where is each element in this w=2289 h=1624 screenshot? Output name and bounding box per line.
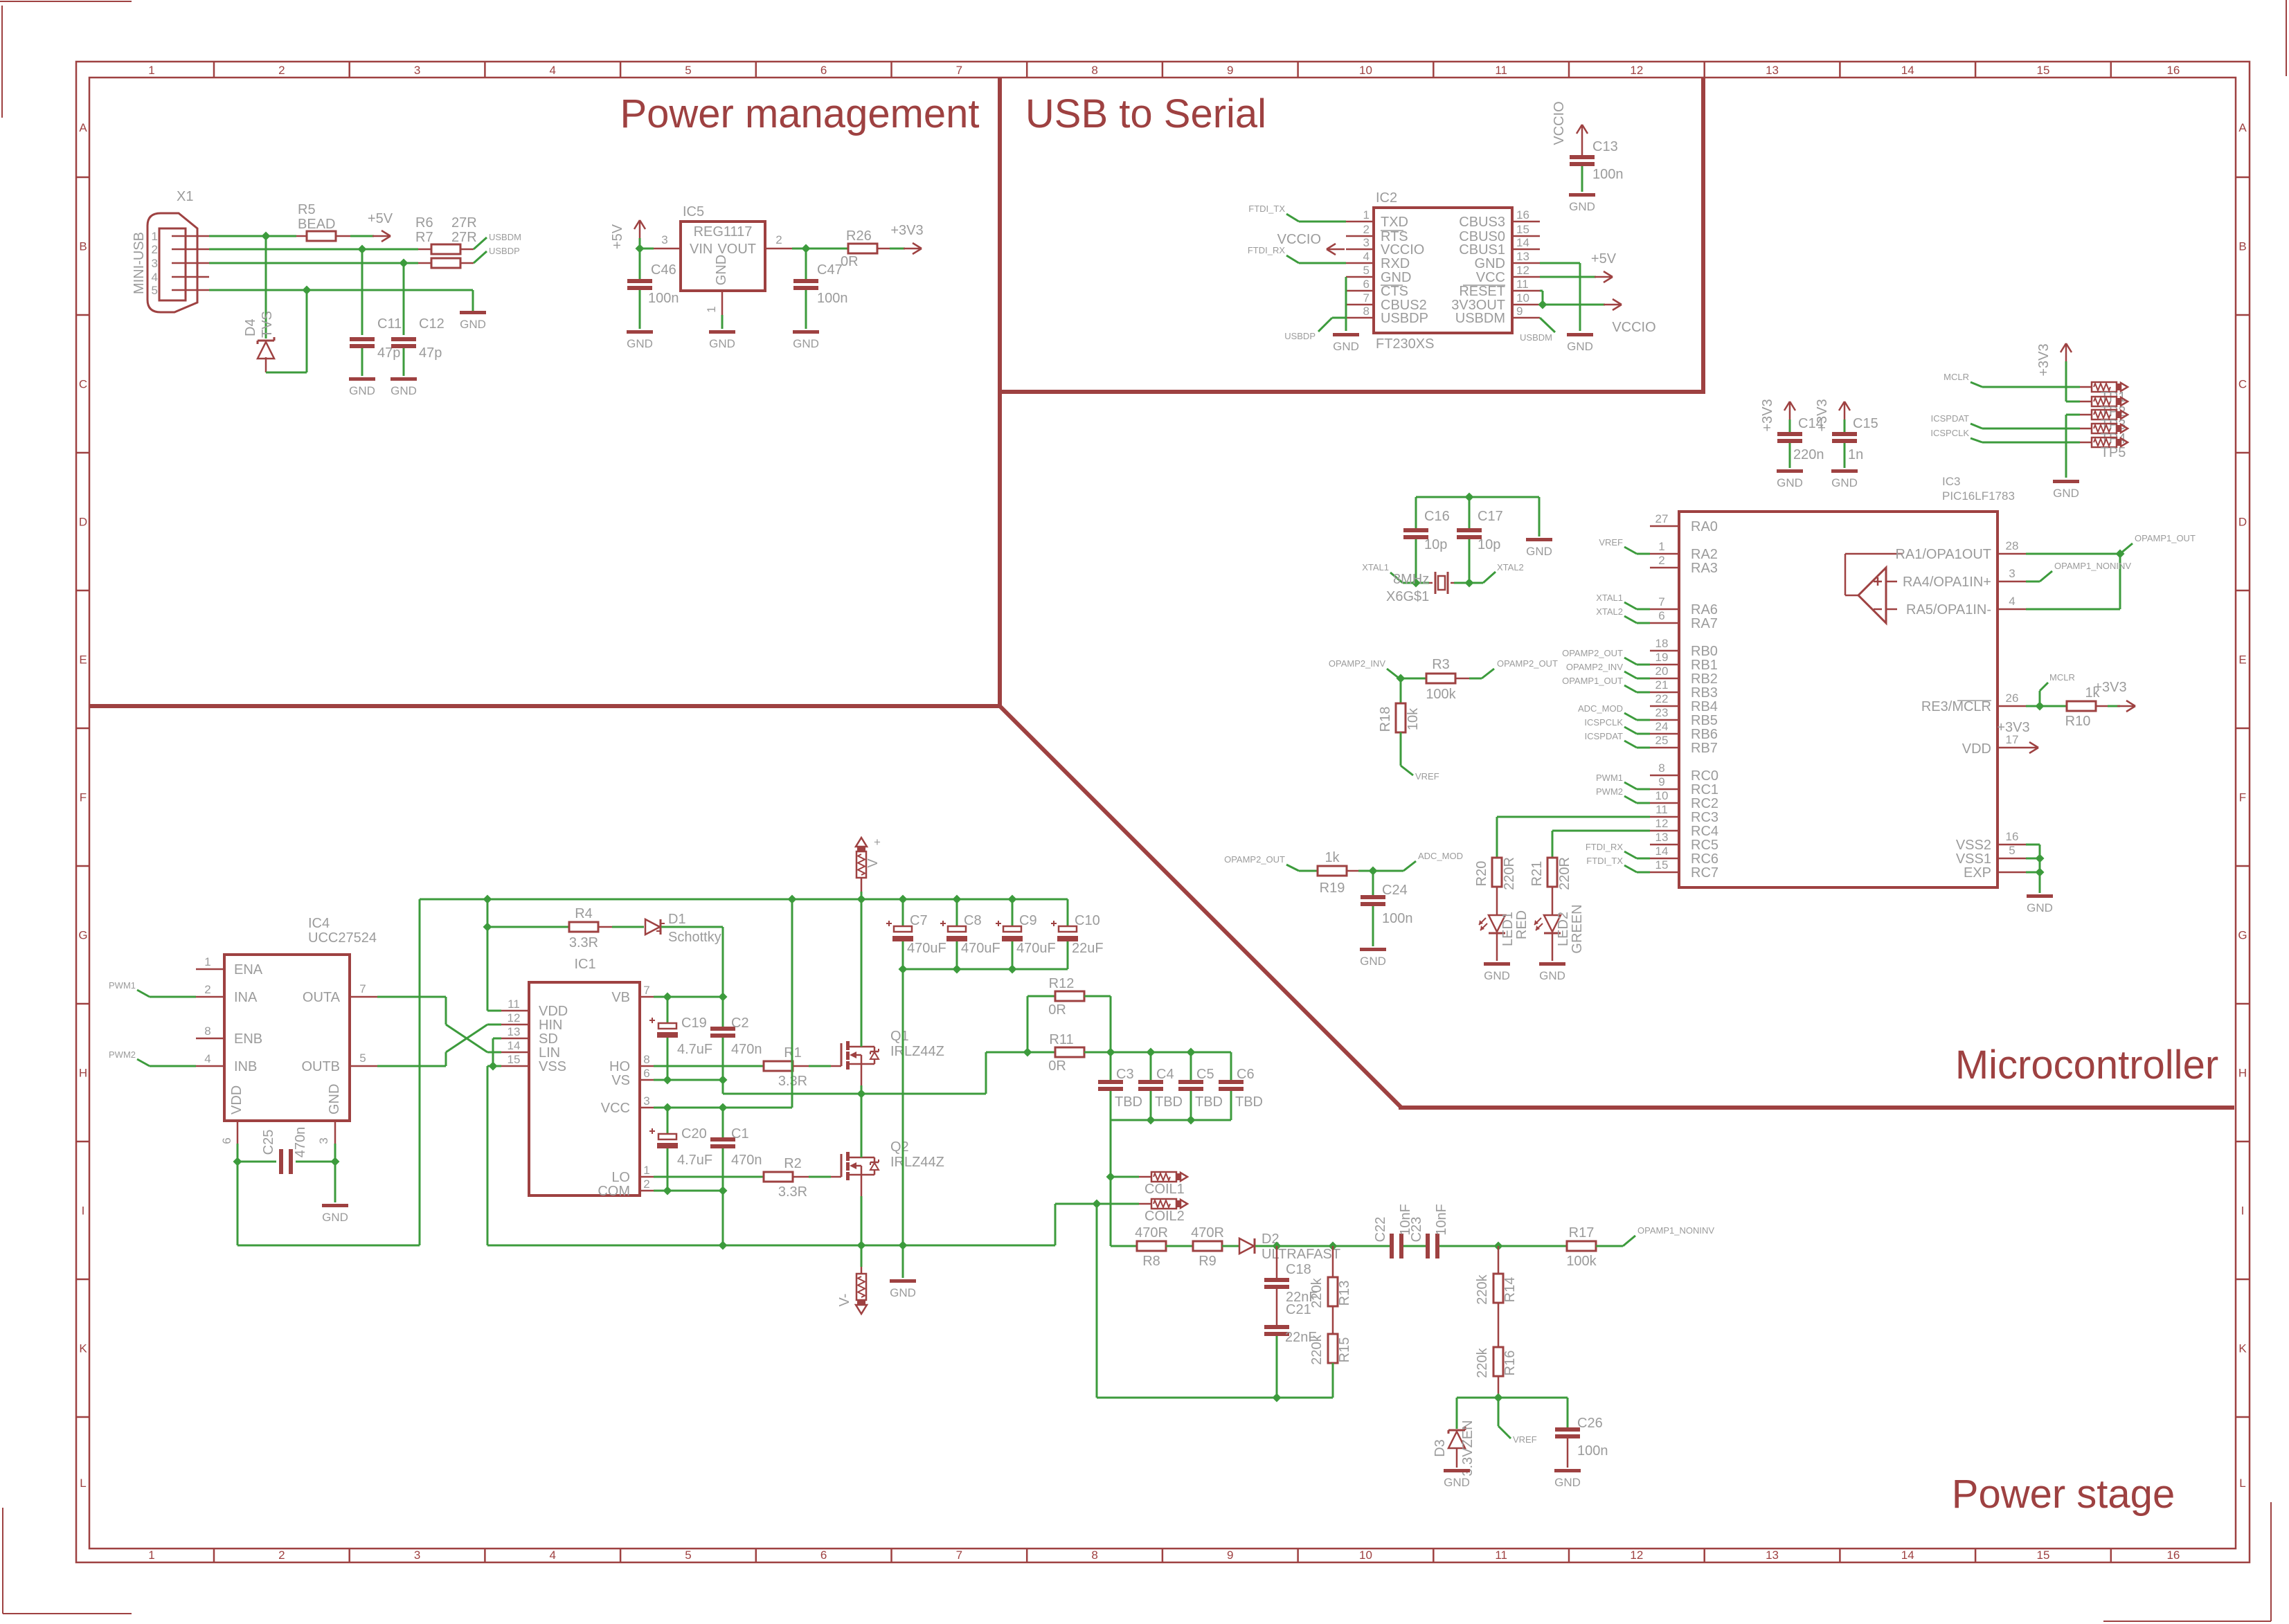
svg-text:D1: D1 [668, 912, 686, 927]
wire OPAMP2_OUT to R19 [1286, 865, 1318, 871]
pin name GND (IC4) [327, 1084, 342, 1115]
label 27R (R6) [451, 215, 477, 231]
wire PWM2 to INB [137, 1059, 196, 1066]
junction C9 bottom [1007, 964, 1016, 973]
svg-text:R9: R9 [1199, 1254, 1217, 1269]
pin IC4 3 lead [317, 1121, 335, 1144]
wire MCLR to TP1 [1971, 382, 2080, 387]
wire IC1 VDD [487, 927, 501, 1011]
svg-text:1: 1 [152, 230, 158, 243]
wire R2 to Q2 gate [793, 1176, 831, 1178]
svg-text:C23: C23 [1409, 1217, 1424, 1243]
label 1k (R10) [2085, 685, 2100, 701]
wire C17 bottom [1469, 539, 1471, 583]
led LED1 [1479, 915, 1505, 933]
svg-text:C10: C10 [1075, 913, 1100, 928]
label C3 [1116, 1067, 1134, 1082]
label C8 [964, 913, 982, 928]
svg-text:VOUT: VOUT [717, 242, 756, 257]
label OPAMP2_OUT net (R3) [1497, 658, 1558, 669]
svg-text:13: 13 [1766, 1549, 1779, 1562]
svg-text:470uF: 470uF [1016, 941, 1056, 956]
label OPAMP1_OUT net (IC3) [1562, 676, 1623, 686]
wire FTDI_TX to pin1 [1286, 214, 1346, 222]
wire OUTA to LIN [377, 997, 501, 1052]
label C13 [1592, 139, 1618, 154]
svg-text:CTS: CTS [1381, 284, 1408, 299]
svg-text:+5V: +5V [1591, 251, 1617, 267]
label MCLR net (TP1) [1944, 372, 1969, 382]
wire ICSPCLK to IC3 [1624, 727, 1650, 734]
ground GND (power stage) [890, 1279, 916, 1299]
pin name RE3/MCLR [1921, 699, 1991, 714]
junction VB/C19 [663, 992, 672, 1001]
label IRLZ44Z (Q1) [890, 1044, 944, 1059]
wire C21/R15 bottom rail [1097, 1204, 1333, 1398]
wire X1 pin1 to R5 [209, 235, 296, 237]
label +5V (IC2) [1591, 251, 1617, 267]
svg-text:D: D [2238, 516, 2247, 529]
pin IC3 17 lead [1998, 733, 2020, 748]
svg-text:B: B [2238, 240, 2246, 253]
svg-text:COIL2: COIL2 [1144, 1209, 1185, 1224]
svg-text:OPAMP1_OUT: OPAMP1_OUT [1562, 676, 1623, 686]
svg-text:2: 2 [775, 233, 782, 246]
junction C17 top [1464, 492, 1473, 501]
wire C3-C6 bottom rail [1111, 1119, 1231, 1121]
wire IC5 GND [721, 315, 724, 329]
wire C16 top [1415, 497, 1417, 528]
svg-text:10nF: 10nF [1434, 1204, 1449, 1236]
ground GND (C46) [627, 330, 653, 350]
svg-text:R5: R5 [298, 202, 316, 217]
svg-text:GND: GND [1360, 955, 1386, 968]
wire crystal to XTAL2 [1454, 572, 1496, 583]
svg-text:23: 23 [1655, 706, 1669, 719]
svg-text:CBUS1: CBUS1 [1459, 242, 1505, 258]
junction V+ rail at IC1 VDD [483, 894, 492, 903]
label IC4 [308, 916, 330, 931]
supply +5V arrow (IC2) [1595, 271, 1613, 282]
label 220k (R14) [1475, 1274, 1490, 1304]
label IC1 [574, 957, 595, 972]
wire pin28 to pin4 loop [2026, 554, 2120, 609]
wire divider to D3 [1456, 1398, 1458, 1429]
label C21 [1286, 1302, 1311, 1317]
svg-text:20: 20 [1655, 665, 1669, 678]
wire D2 to C22 [1255, 1245, 1390, 1247]
svg-text:220R: 220R [1502, 857, 1517, 890]
svg-text:0R: 0R [1048, 1002, 1066, 1018]
svg-text:2: 2 [204, 983, 210, 996]
svg-text:24: 24 [1655, 720, 1669, 733]
label ADC_MOD net (R19) [1418, 851, 1463, 861]
wire C17 top lead [1469, 497, 1471, 528]
svg-text:8: 8 [204, 1025, 210, 1038]
svg-text:Q2: Q2 [890, 1139, 909, 1155]
svg-text:9: 9 [1227, 1549, 1233, 1562]
svg-text:IC2: IC2 [1376, 190, 1397, 206]
svg-text:RC3: RC3 [1691, 810, 1718, 825]
label R9 [1199, 1254, 1217, 1269]
svg-text:14: 14 [1901, 1549, 1914, 1562]
resistor R5 [296, 231, 350, 241]
label TBD (C6) [1235, 1094, 1263, 1110]
svg-text:XTAL1: XTAL1 [1362, 562, 1389, 572]
svg-text:VDD: VDD [539, 1004, 568, 1019]
svg-text:R14: R14 [1502, 1277, 1518, 1303]
supply V+ symbol [856, 838, 867, 899]
svg-text:IRLZ44Z: IRLZ44Z [890, 1044, 944, 1059]
svg-text:0R: 0R [1048, 1058, 1066, 1074]
svg-text:5: 5 [359, 1052, 366, 1065]
resistor R17 [1567, 1241, 1596, 1251]
ground GND (IC2 left) [1333, 333, 1359, 353]
junction R14 top [1493, 1241, 1502, 1250]
svg-text:3: 3 [643, 1094, 649, 1108]
junction C8 bottom [952, 964, 961, 973]
svg-text:RA3: RA3 [1691, 561, 1718, 576]
svg-text:G: G [2238, 929, 2247, 942]
junction C4 top [1146, 1047, 1155, 1056]
svg-text:8: 8 [1091, 1549, 1097, 1562]
svg-text:470R: 470R [1135, 1225, 1168, 1240]
svg-text:10: 10 [1359, 1549, 1372, 1562]
svg-text:MINI-USB: MINI-USB [132, 232, 147, 294]
ground GND (C14) [1777, 469, 1803, 489]
label USBDP net (IC2) [1284, 331, 1316, 341]
supply +3V3 arrow (TP2) [2061, 343, 2072, 402]
wire PWM2 to IC3 [1624, 796, 1650, 803]
svg-text:100n: 100n [1577, 1443, 1608, 1459]
wire LED2 to GND [1552, 933, 1554, 961]
svg-text:OPAMP2_OUT: OPAMP2_OUT [1224, 854, 1285, 865]
svg-text:R10: R10 [2065, 714, 2091, 729]
junction R16 bottom [1493, 1393, 1502, 1402]
wire GND rail [487, 1245, 1055, 1247]
wire COM to GND rail [654, 1191, 723, 1245]
capacitor C13 [1570, 155, 1595, 166]
svg-text:C25: C25 [261, 1130, 276, 1155]
label FT230XS [1376, 336, 1434, 352]
svg-text:26: 26 [2006, 692, 2019, 705]
label OPAMP2_INV net (R3) [1329, 658, 1385, 669]
svg-text:C22: C22 [1373, 1217, 1388, 1243]
wire C47 to GND [805, 290, 807, 329]
page corner mark top-right [2286, 0, 2287, 76]
ic IC1 left pins [501, 998, 568, 1074]
pin name VDD (IC3) [1962, 741, 1991, 757]
svg-text:ADC_MOD: ADC_MOD [1578, 703, 1623, 714]
svg-text:13: 13 [508, 1025, 521, 1038]
label MINI-USB [132, 232, 147, 294]
resistor R16 [1493, 1303, 1503, 1398]
svg-text:RB3: RB3 [1691, 685, 1718, 701]
label R5 [298, 202, 316, 217]
junction V+ rail at VCC drop [787, 894, 796, 903]
label USBDM net [489, 232, 521, 242]
junction C7 top [898, 894, 907, 903]
label OPAMP1_OUT net (IC3) [2135, 533, 2196, 543]
label 1n (C15) [1848, 447, 1863, 462]
svg-text:470n: 470n [731, 1042, 762, 1057]
wire C25 to pin3 [296, 1144, 335, 1162]
svg-text:K: K [79, 1342, 87, 1355]
wire MCLR label stub [2040, 683, 2048, 706]
label 220R (R20) [1502, 857, 1517, 890]
wire pin28 to OPAMP1_OUT [2026, 543, 2133, 554]
label R18 [1378, 707, 1393, 732]
label VCCIO (pin3) [1277, 232, 1321, 247]
label R19 [1320, 881, 1345, 896]
label R26 [846, 228, 872, 244]
resistor R9 [1193, 1241, 1222, 1251]
label Q2 [890, 1139, 909, 1155]
svg-text:RB4: RB4 [1691, 699, 1718, 714]
junction VS/C2 [718, 1075, 727, 1084]
svg-text:3: 3 [661, 233, 667, 246]
svg-text:H: H [2238, 1067, 2247, 1080]
svg-text:6: 6 [220, 1137, 233, 1144]
svg-text:220R: 220R [1557, 857, 1572, 890]
wire IC2 pin12 to +5V [1540, 276, 1596, 278]
wire cap rail to GND [902, 969, 904, 1245]
svg-text:11: 11 [1516, 278, 1529, 291]
svg-text:28: 28 [2006, 539, 2019, 552]
wire divider to C26 [1567, 1398, 1569, 1427]
capacitor C47 [793, 279, 818, 290]
label 220k (R16) [1475, 1347, 1490, 1378]
wire TP3 to GND [2066, 415, 2080, 478]
svg-text:12: 12 [1655, 817, 1669, 830]
svg-text:R12: R12 [1049, 976, 1075, 991]
svg-text:B: B [79, 240, 87, 253]
pin number 1 (IC5) [705, 306, 718, 312]
ground GND (X1) [460, 311, 486, 331]
svg-text:GND: GND [460, 318, 486, 331]
wire IC4 pin6 to C25 [237, 1144, 276, 1162]
svg-text:GND: GND [1567, 340, 1593, 353]
svg-text:ICSPCLK: ICSPCLK [1930, 428, 1969, 438]
svg-text:+: + [874, 836, 881, 849]
label 4.7uF (C20) [677, 1153, 712, 1168]
wire R12 left [1027, 996, 1055, 1052]
label C2 [731, 1016, 749, 1031]
label PIC16LF1783 [1942, 489, 2015, 503]
wire VS to Q1 source [654, 1080, 986, 1094]
svg-text:22uF: 22uF [1072, 941, 1104, 956]
svg-text:R26: R26 [846, 228, 872, 244]
label 220R (R21) [1557, 857, 1572, 890]
svg-text:3.3VZEN: 3.3VZEN [1460, 1420, 1475, 1476]
label 3.3R (R2) [778, 1184, 807, 1200]
svg-text:TBD: TBD [1235, 1094, 1263, 1110]
svg-text:27R: 27R [451, 230, 477, 245]
capacitor C21 [1264, 1325, 1289, 1398]
junction R11 left [1023, 1047, 1032, 1056]
ground GND (C13) [1569, 193, 1595, 213]
wire R1 to Q1 gate [793, 1065, 831, 1067]
svg-text:C21: C21 [1286, 1302, 1311, 1317]
ic IC3 left pin names [1691, 519, 1718, 881]
testpoint TP4 [2080, 424, 2128, 433]
wire ADC_MOD to IC3 [1624, 713, 1650, 720]
svg-text:10: 10 [1359, 64, 1372, 77]
svg-text:OPAMP2_INV: OPAMP2_INV [1329, 658, 1385, 669]
wire IC2 pin8 to USBDP [1318, 318, 1346, 332]
svg-text:C9: C9 [1019, 913, 1037, 928]
svg-text:XTAL1: XTAL1 [1596, 593, 1623, 603]
svg-text:GREEN: GREEN [1570, 904, 1585, 953]
svg-text:13: 13 [1516, 250, 1529, 263]
svg-text:H: H [79, 1067, 87, 1080]
label C20 [681, 1126, 707, 1142]
ground GND (C24) [1360, 948, 1386, 968]
svg-text:K: K [2238, 1342, 2247, 1355]
wire R4 row [487, 926, 569, 928]
wire VB to caps [654, 996, 723, 998]
wire FTDI_TX to IC3 [1624, 865, 1650, 872]
label +5V (X1) [368, 211, 393, 226]
label Schottky [668, 930, 721, 945]
svg-text:19: 19 [1655, 651, 1669, 664]
svg-text:0R: 0R [841, 254, 859, 269]
svg-text:C4: C4 [1156, 1067, 1174, 1082]
supply VCCIO arrow (pin10) [1604, 299, 1622, 310]
svg-text:PWM1: PWM1 [109, 980, 136, 991]
svg-text:FT230XS: FT230XS [1376, 336, 1434, 352]
svg-text:C: C [79, 378, 87, 391]
resistor R10 [2067, 701, 2108, 711]
label 47p (C12) [419, 345, 442, 361]
label IC5 [683, 204, 704, 219]
label ICSPCLK net (IC3) [1584, 717, 1623, 728]
svg-text:GND: GND [327, 1084, 342, 1115]
wire C46 to GND [639, 290, 641, 329]
page corner mark bottom-right [2103, 1502, 2271, 1621]
label 10p (C16) [1424, 537, 1447, 552]
svg-text:3: 3 [152, 257, 158, 270]
wire X1 pin5 to GND [209, 290, 473, 311]
svg-text:8: 8 [643, 1053, 649, 1066]
supply +3V3 arrow (R10) [2117, 701, 2135, 712]
svg-text:R8: R8 [1142, 1254, 1160, 1269]
svg-text:27R: 27R [451, 215, 477, 231]
supply +3V3 arrow (R26) [904, 243, 922, 254]
svg-text:GND: GND [627, 337, 653, 350]
label BEAD [298, 217, 335, 232]
junction +5V/C46 [635, 244, 644, 253]
wire R7 to USBDP [474, 251, 487, 263]
label ICSPCLK net [1930, 428, 1969, 438]
label TP1 [2101, 390, 2126, 405]
connector X1 MINI-USB [147, 213, 209, 312]
wire FTDI_RX to IC3 [1624, 851, 1650, 858]
label R17 [1569, 1225, 1595, 1240]
label D4 [243, 318, 258, 336]
svg-text:USBDP: USBDP [1381, 311, 1428, 326]
wire R5 to +5V [350, 235, 374, 237]
label TP5 [2101, 445, 2126, 460]
label FTDI_TX net [1248, 204, 1285, 214]
junction D2/C18 [1272, 1241, 1281, 1250]
pin IC5 GND lead [721, 291, 724, 315]
label R1 [784, 1045, 802, 1061]
label IC2 [1376, 190, 1397, 206]
svg-text:100n: 100n [1382, 911, 1413, 926]
svg-text:VIN: VIN [690, 242, 712, 257]
svg-text:C26: C26 [1577, 1416, 1603, 1431]
svg-text:ENB: ENB [234, 1031, 262, 1047]
svg-text:D4: D4 [243, 318, 258, 336]
wire C3 rail to COIL1 [1110, 1120, 1112, 1246]
testpoint TP1 [2080, 382, 2128, 392]
svg-text:RB5: RB5 [1691, 713, 1718, 728]
wire C16 bottom [1415, 539, 1417, 583]
label C23 [1409, 1217, 1424, 1243]
svg-text:VCCIO: VCCIO [1277, 232, 1321, 247]
junction COIL2/C21 return [1092, 1199, 1101, 1208]
wire IC4 VDD loop [237, 899, 420, 1245]
svg-text:C12: C12 [419, 316, 445, 332]
svg-text:1k: 1k [1325, 850, 1340, 865]
label 0R (R26) [841, 254, 859, 269]
junction C8 top [952, 894, 961, 903]
svg-text:100n: 100n [817, 291, 848, 306]
svg-text:11: 11 [1495, 1549, 1507, 1562]
resistor R18 [1396, 703, 1406, 732]
testpoint TP5 [2080, 437, 2128, 447]
svg-text:C1: C1 [731, 1126, 749, 1142]
label R6 [415, 215, 433, 231]
svg-text:10p: 10p [1424, 537, 1447, 552]
ground GND (crystal) [1526, 538, 1552, 558]
ic IC1 box [529, 982, 640, 1196]
wire R6 to USBDM [474, 237, 487, 249]
svg-text:MCLR: MCLR [2049, 672, 2075, 683]
svg-text:10p: 10p [1478, 537, 1500, 552]
wire R9 to D2 [1222, 1245, 1239, 1247]
label C46 [651, 262, 676, 278]
svg-text:R4: R4 [575, 906, 593, 921]
svg-text:L: L [2239, 1477, 2245, 1490]
wire XTAL1 to IC3 [1624, 602, 1650, 609]
label Q1 [890, 1029, 909, 1044]
wire C14 to GND [1789, 443, 1791, 468]
label C1 [731, 1126, 749, 1142]
pin IC3 4 lead [1998, 595, 2026, 609]
svg-text:15: 15 [1655, 858, 1669, 872]
svg-text:12: 12 [1630, 64, 1643, 77]
label C9 [1019, 913, 1037, 928]
label 470uF (C9) [1016, 941, 1056, 956]
frame row ticks [76, 177, 2250, 1417]
capacitor C12 [391, 337, 416, 376]
ic IC2 right pin leads and numbers [1512, 208, 1540, 318]
svg-text:GND: GND [793, 337, 819, 350]
wire IC3 RC4 to R21 [1552, 831, 1650, 858]
ic IC2 right pin names [1451, 215, 1505, 326]
svg-text:GND: GND [1554, 1476, 1581, 1489]
label TP2 [2101, 404, 2126, 419]
svg-text:470uF: 470uF [907, 941, 946, 956]
svg-text:VDD: VDD [1962, 741, 1991, 757]
wire IC2 pin10 to VCCIO [1540, 304, 1605, 306]
svg-text:16: 16 [2166, 1549, 2180, 1562]
svg-text:I: I [82, 1205, 85, 1218]
label COIL1 [1144, 1182, 1185, 1197]
wire USBDP to C12 [403, 263, 405, 335]
